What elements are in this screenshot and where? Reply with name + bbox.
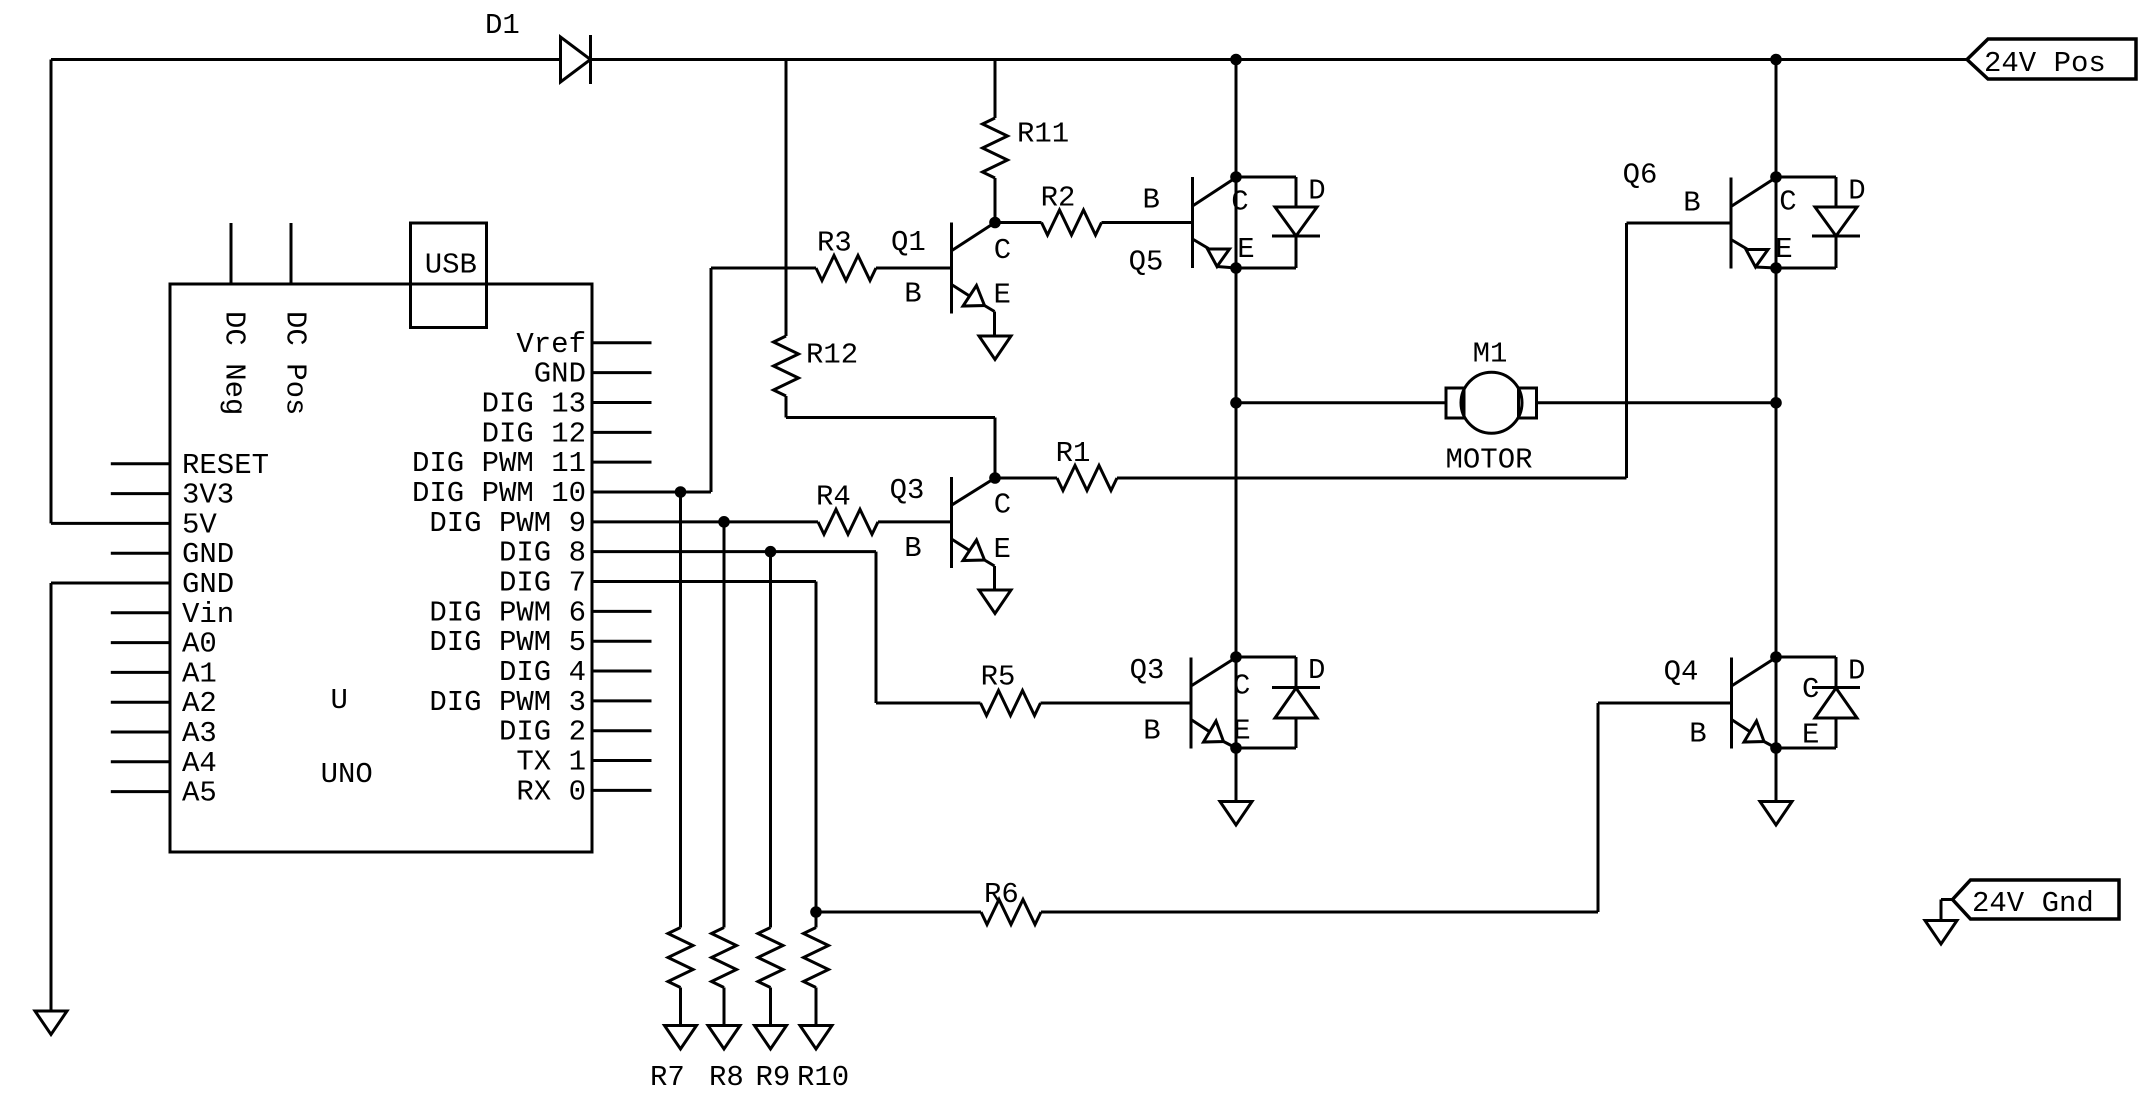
wire DIG PWM 10 net [592, 491, 711, 494]
node Q3 bottom emitter [1230, 742, 1242, 754]
resistor R2 [1042, 210, 1102, 235]
svg-text:M1: M1 [1473, 338, 1508, 371]
svg-text:C: C [994, 489, 1011, 522]
resistor R4 [818, 509, 878, 534]
svg-text:A0: A0 [182, 628, 217, 661]
diode D Q6 [1776, 176, 1836, 179]
Arduino UNO U1 body [170, 284, 592, 852]
svg-text:A3: A3 [182, 717, 217, 750]
svg-text:B: B [1143, 184, 1160, 217]
svg-text:R8: R8 [709, 1061, 744, 1094]
wire R4 to Q3 base [878, 520, 952, 523]
transistor Q3 bottom base bar [1190, 658, 1193, 749]
node junction top right bus [1770, 54, 1782, 66]
wire R9 to ground [769, 988, 772, 1026]
transistor Q6 emitter [1731, 240, 1747, 250]
pin A2 stub [111, 701, 170, 704]
ground R10 [800, 1026, 832, 1050]
wire DIG 8 riser down [875, 552, 878, 703]
svg-text:C: C [1779, 186, 1796, 219]
svg-text:DIG 2: DIG 2 [499, 716, 586, 749]
transistor Q4 collector [1732, 658, 1777, 687]
wire R5 to Q3 base [1041, 702, 1192, 705]
pin RESET stub [111, 462, 170, 465]
wire 5V pin connection [51, 522, 170, 525]
svg-text:GND: GND [182, 538, 234, 571]
svg-text:D: D [1308, 175, 1325, 208]
svg-text:B: B [904, 278, 921, 311]
ground Q4 [1760, 802, 1792, 826]
svg-text:DIG PWM 3: DIG PWM 3 [429, 686, 586, 719]
svg-text:DIG PWM 11: DIG PWM 11 [412, 447, 586, 480]
node junction R8 tap [718, 516, 730, 528]
wire R2 to Q5 base [1102, 221, 1193, 224]
transistor Q1 base bar [950, 223, 953, 314]
svg-text:MOTOR: MOTOR [1446, 444, 1533, 477]
svg-text:Q6: Q6 [1623, 159, 1658, 192]
pin DIG 13 stub [592, 401, 652, 404]
svg-text:R9: R9 [756, 1061, 791, 1094]
wire R6 riser to Q4 base [1597, 703, 1600, 912]
wire 5V left vertical rail [50, 60, 53, 524]
svg-text:E: E [1237, 233, 1254, 266]
svg-text:C: C [1233, 670, 1250, 703]
node Q6 collector [1770, 171, 1782, 183]
svg-text:E: E [994, 279, 1011, 312]
wire R12 from rail [785, 60, 788, 337]
svg-text:DC Neg: DC Neg [218, 311, 251, 415]
svg-text:DC Pos: DC Pos [279, 311, 312, 415]
pin A0 stub [111, 641, 170, 644]
svg-text:B: B [1683, 187, 1700, 220]
svg-text:D: D [1308, 654, 1325, 687]
motor M1 [1446, 388, 1464, 418]
svg-text:D: D [1848, 655, 1865, 688]
wire R5 row left [876, 702, 981, 705]
wire R10 column [815, 582, 818, 928]
svg-text:DIG 12: DIG 12 [482, 417, 586, 450]
node Q4 collector [1770, 651, 1782, 663]
svg-text:R6: R6 [984, 878, 1019, 911]
pin A1 stub [111, 671, 170, 674]
svg-text:3V3: 3V3 [182, 479, 234, 512]
pin 3V3 stub [111, 492, 170, 495]
wire riser to R3 [710, 268, 713, 492]
wire R9 column [769, 552, 772, 928]
node Q4 emitter [1770, 742, 1782, 754]
wire left bus [1235, 60, 1238, 802]
svg-text:C: C [994, 234, 1011, 267]
svg-text:D1: D1 [485, 9, 520, 42]
wire DIG 7 net [592, 580, 816, 583]
svg-text:GND: GND [534, 358, 586, 391]
svg-text:DIG PWM 5: DIG PWM 5 [429, 626, 586, 659]
wire R11 to Q1 collector [994, 178, 997, 223]
node Q3 collector [989, 472, 1001, 484]
wire Q3 bottom emitter to ground [1235, 748, 1238, 802]
wire Q3 emitter to ground [993, 566, 996, 590]
svg-text:R4: R4 [816, 480, 851, 513]
USB connector box [411, 223, 487, 328]
wire motor right [1537, 401, 1777, 404]
wire right bus [1775, 60, 1778, 802]
wire R11 from rail [994, 60, 997, 119]
wire Q1 collector to R2 [995, 221, 1042, 224]
transistor Q4 emitter [1732, 720, 1751, 733]
svg-text:DIG PWM 6: DIG PWM 6 [429, 596, 586, 629]
pin A4 stub [111, 760, 170, 763]
wire Q4 emitter to ground [1775, 748, 1778, 802]
transistor Q4 base bar [1730, 658, 1733, 749]
ground R8 [708, 1026, 740, 1050]
svg-text:Vin: Vin [182, 598, 234, 631]
ground R7 [665, 1026, 697, 1050]
svg-text:C: C [1802, 673, 1819, 706]
wire DIG PWM 9 net [592, 520, 818, 523]
pin DIG PWM 11 stub [592, 461, 652, 464]
svg-text:A5: A5 [182, 777, 217, 810]
svg-text:E: E [994, 533, 1011, 566]
svg-text:TX 1: TX 1 [516, 746, 586, 779]
transistor Q6 base bar [1730, 178, 1733, 269]
svg-text:24V Pos: 24V Pos [1984, 47, 2106, 80]
svg-text:A1: A1 [182, 657, 217, 690]
node junction top left bus [1230, 54, 1242, 66]
transistor Q5 base bar [1191, 177, 1194, 268]
svg-text:DIG 4: DIG 4 [499, 656, 586, 689]
pin RX 0 stub [592, 789, 652, 792]
wire R10 to ground [815, 988, 818, 1026]
transistor Q3 base bar [950, 477, 953, 568]
svg-text:R10: R10 [797, 1061, 849, 1094]
svg-text:A4: A4 [182, 747, 217, 780]
node Q5 collector [1230, 171, 1242, 183]
ground [35, 1011, 67, 1035]
wire 24V positive rail [591, 58, 1968, 61]
svg-text:B: B [904, 532, 921, 565]
transistor Q3 emitter [952, 539, 970, 551]
svg-text:R3: R3 [817, 227, 852, 260]
pin Vin stub [111, 611, 170, 614]
transistor Q1 emitter [952, 285, 970, 297]
wire R12 bottom elbow [785, 396, 788, 418]
resistor R11 [983, 118, 1008, 178]
wire Q1 emitter to ground [993, 312, 996, 337]
wire R3 to Q1 base [876, 267, 952, 270]
node Q5 emitter [1230, 262, 1242, 274]
wire 24V Gnd stub [1941, 898, 1953, 901]
resistor R10 [804, 928, 829, 988]
ground R9 [755, 1026, 787, 1050]
svg-text:B: B [1143, 715, 1160, 748]
pin DIG PWM 5 stub [592, 640, 652, 643]
svg-text:USB: USB [425, 249, 477, 282]
svg-text:GND: GND [182, 568, 234, 601]
node motor left tap [1230, 397, 1242, 409]
pin A5 stub [111, 790, 170, 793]
wire R8 to ground [723, 988, 726, 1026]
svg-text:A2: A2 [182, 687, 217, 720]
svg-text:R1: R1 [1056, 437, 1091, 470]
svg-text:Vref: Vref [516, 328, 586, 361]
wire R7 to ground [679, 988, 682, 1026]
svg-text:D: D [1848, 175, 1865, 208]
resistor R9 [758, 928, 783, 988]
svg-text:Q4: Q4 [1664, 656, 1699, 689]
node junction R9 tap [765, 546, 777, 558]
svg-text:24V Gnd: 24V Gnd [1972, 887, 2094, 920]
pin DIG PWM 6 stub [592, 610, 652, 613]
pin A3 stub [111, 731, 170, 734]
svg-text:R11: R11 [1017, 118, 1069, 151]
wire R6 row right [1041, 911, 1598, 914]
wire R3 row left [711, 267, 816, 270]
wire DIG 8 net [592, 550, 876, 553]
svg-text:R12: R12 [806, 339, 858, 372]
svg-text:R5: R5 [981, 661, 1016, 694]
node junction R7 tap [675, 486, 687, 498]
transistor Q6 collector [1731, 178, 1776, 207]
svg-text:C: C [1231, 186, 1248, 219]
ground 24V Gnd [1925, 921, 1957, 945]
resistor R5 [981, 691, 1041, 716]
wire R1 riser to Q6 base [1625, 223, 1628, 478]
diode D Q5 [1236, 176, 1296, 179]
transistor Q5 collector [1193, 178, 1237, 207]
pin DC Neg stub [230, 223, 233, 284]
svg-text:E: E [1775, 233, 1792, 266]
wire R1 to riser [1117, 477, 1627, 480]
ground Q1 [979, 336, 1011, 360]
svg-text:Q3: Q3 [890, 474, 925, 507]
resistor R6 [981, 900, 1041, 925]
svg-text:U: U [331, 684, 348, 717]
svg-text:R7: R7 [650, 1061, 685, 1094]
ground Q3 bottom [1220, 802, 1252, 826]
node Q3 bottom collector [1230, 651, 1242, 663]
diode D1 [561, 37, 591, 82]
resistor R8 [712, 928, 737, 988]
wire Q3 collector to R1 [995, 477, 1057, 480]
resistor R7 [668, 928, 693, 988]
resistor R1 [1057, 466, 1117, 491]
pin DC Pos stub [290, 223, 293, 284]
pin GND stub [592, 371, 652, 374]
svg-text:Q3: Q3 [1130, 654, 1165, 687]
pin DIG 4 stub [592, 670, 652, 673]
pin GND stub [111, 552, 170, 555]
pin DIG 2 stub [592, 729, 652, 732]
transistor Q3 collector [952, 478, 996, 505]
svg-text:UNO: UNO [321, 758, 373, 791]
diode D Q3 bottom [1236, 656, 1296, 659]
svg-text:E: E [1233, 715, 1250, 748]
wire 5V top rail horizontal [51, 58, 561, 61]
svg-text:DIG 13: DIG 13 [482, 387, 586, 420]
svg-text:RESET: RESET [182, 449, 269, 482]
transistor Q1 collector [952, 223, 996, 251]
pin DIG 12 stub [592, 431, 652, 434]
svg-text:Q5: Q5 [1129, 246, 1164, 279]
wire R7 column [679, 492, 682, 928]
svg-text:5V: 5V [182, 508, 217, 541]
node Q1 collector [989, 217, 1001, 229]
transistor Q5 emitter [1193, 239, 1209, 249]
resistor R12 [774, 336, 799, 396]
svg-text:DIG 8: DIG 8 [499, 537, 586, 570]
pin DIG PWM 3 stub [592, 699, 652, 702]
wire R8 column [723, 522, 726, 928]
svg-text:DIG 7: DIG 7 [499, 567, 586, 600]
svg-text:R2: R2 [1041, 182, 1076, 215]
wire GND left vertical rail [50, 583, 53, 1011]
svg-text:DIG PWM 9: DIG PWM 9 [429, 507, 586, 540]
node Q6 emitter [1770, 262, 1782, 274]
ground Q3 upper [979, 590, 1011, 614]
svg-text:Q1: Q1 [891, 226, 926, 259]
svg-text:B: B [1689, 718, 1706, 751]
pin TX 1 stub [592, 759, 652, 762]
power flag 24V Pos [1967, 39, 2136, 79]
power flag 24V Gnd [1953, 880, 2120, 919]
node junction R6 tap [810, 906, 822, 918]
svg-text:DIG PWM 10: DIG PWM 10 [412, 477, 586, 510]
diode D Q4 [1776, 656, 1836, 659]
pin Vref stub [592, 341, 652, 344]
node motor right tap [1770, 397, 1782, 409]
resistor R3 [816, 256, 876, 281]
wire motor left [1236, 401, 1446, 404]
svg-text:RX 0: RX 0 [516, 775, 586, 808]
transistor Q3 bottom collector [1191, 658, 1236, 687]
transistor Q3 bottom emitter [1191, 720, 1210, 733]
wire R6 row left [816, 911, 981, 914]
